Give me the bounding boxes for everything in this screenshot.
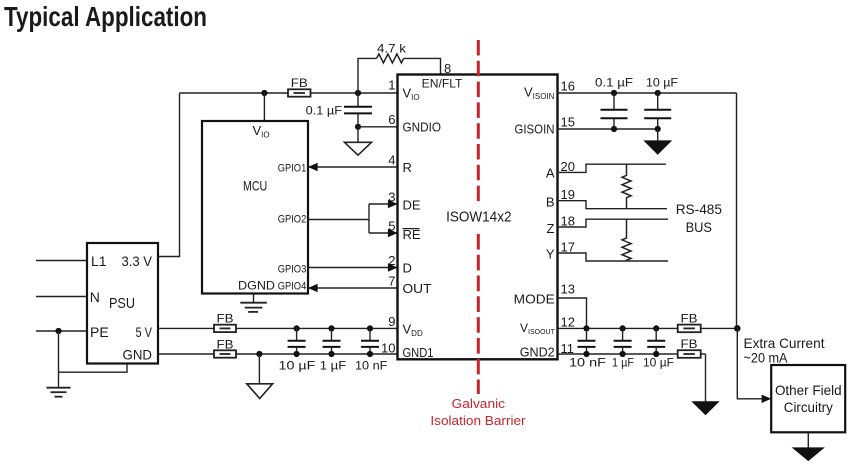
capacitor 10 uF (VISOOUT) — [643, 325, 674, 369]
svg-text:1: 1 — [388, 78, 395, 93]
MCU U3 box — [202, 121, 308, 294]
wire: RE pin 5 — [369, 232, 398, 234]
wire: stem to open triangle ground — [258, 354, 260, 384]
wire: A pin 20 — [558, 164, 667, 172]
svg-text:18: 18 — [561, 214, 575, 229]
svg-text:10 µF: 10 µF — [279, 359, 316, 373]
svg-text:17: 17 — [561, 240, 575, 255]
svg-text:RS-485: RS-485 — [676, 201, 723, 217]
resistor: Z-Y termination — [622, 219, 631, 261]
svg-text:FB: FB — [217, 337, 234, 351]
svg-text:5 V: 5 V — [136, 324, 153, 340]
svg-text:10: 10 — [381, 340, 395, 355]
capacitor 10 uF (VISOIN) — [644, 76, 678, 133]
wire: 3.3V up to VIO rail — [158, 93, 180, 257]
capacitor 10 nF (VISOOUT) — [569, 325, 606, 369]
svg-text:MCU: MCU — [243, 178, 267, 194]
arrowhead into DE — [388, 200, 398, 208]
svg-text:GND2: GND2 — [520, 344, 555, 359]
svg-text:Other Field: Other Field — [775, 382, 842, 398]
node: VIO rail / MCU branch — [261, 90, 267, 96]
svg-text:GPIO2: GPIO2 — [278, 214, 307, 226]
svg-text:12: 12 — [561, 314, 575, 329]
wire: GND rail to GND1 — [158, 353, 398, 355]
svg-text:EN/FLT: EN/FLT — [422, 77, 463, 91]
wire: GISOIN rail pin 15 — [558, 128, 658, 130]
wire: R to GPIO1 — [308, 166, 398, 168]
ground: filled triangle under 10uF — [645, 141, 672, 154]
svg-text:9: 9 — [388, 314, 395, 329]
svg-text:Z: Z — [547, 221, 555, 236]
node: GND rail ground branch — [256, 351, 262, 357]
wire: GPIO2 to DE/RE bracket — [308, 219, 369, 221]
svg-text:Circuitry: Circuitry — [784, 399, 833, 415]
ferrite bead FB (5V rail) — [214, 311, 236, 332]
svg-text:N: N — [90, 289, 100, 305]
wire: PE input — [36, 330, 87, 332]
svg-text:GPIO3: GPIO3 — [278, 263, 307, 275]
capacitor 1 uF (VISOOUT) — [612, 325, 634, 369]
wire: GPIO3 to D pin 2 — [308, 267, 398, 269]
wire: stem to iso ground — [657, 129, 659, 141]
wire: drop to Other Field Circuitry — [737, 328, 762, 398]
svg-text:16: 16 — [561, 79, 575, 94]
ferrite bead FB (GND2 rail) — [678, 337, 701, 358]
svg-text:Galvanic: Galvanic — [452, 397, 505, 411]
wire: GND2 drop to iso ground — [705, 354, 707, 402]
svg-text:~20 mA: ~20 mA — [744, 350, 789, 366]
svg-text:19: 19 — [561, 187, 575, 202]
wire: DE/RE bracket vertical — [368, 204, 370, 233]
arrowhead into GPIO4 — [308, 284, 318, 292]
wire: 5V rail to VDD — [158, 327, 398, 329]
svg-text:15: 15 — [561, 115, 575, 130]
capacitor 10 nF (VDD) — [355, 325, 387, 372]
wire: VIO drop to MCU — [263, 93, 265, 121]
ground: filled triangle under GND2 FB — [693, 402, 719, 415]
wire: Z pin 18 — [558, 219, 669, 227]
capacitor 0.1 uF (VISOIN) — [595, 76, 633, 133]
wire: VISOIN rail drop — [736, 93, 738, 328]
svg-text:MODE: MODE — [514, 291, 555, 306]
wire: VISOIN rail pin 16 — [558, 92, 737, 94]
svg-text:7: 7 — [388, 274, 395, 289]
wire: VISOOUT rail pin 12 — [558, 327, 738, 329]
svg-text:1 µF: 1 µF — [320, 359, 347, 373]
svg-text:FB: FB — [681, 311, 698, 325]
op IC U1 ISOW14x2 box — [398, 75, 558, 360]
arrowhead into RE — [388, 229, 398, 237]
svg-text:B: B — [546, 194, 555, 209]
wire: N input — [36, 296, 87, 298]
node: cap to GNDIO wire — [355, 124, 361, 130]
svg-text:4: 4 — [388, 153, 395, 168]
wire: stem to signal ground — [357, 127, 359, 143]
svg-text:D: D — [403, 261, 412, 276]
wire: PE to earth ground — [58, 331, 60, 388]
node: VIO rail / resistor+cap branch — [355, 90, 361, 96]
svg-text:2: 2 — [388, 253, 395, 268]
wire: L1 input — [36, 260, 87, 262]
arrowhead into Other Field Circuitry — [762, 395, 772, 403]
svg-text:1 µF: 1 µF — [612, 356, 634, 370]
svg-text:0.1 µF: 0.1 µF — [595, 76, 633, 90]
ferrite bead FB (GND rail) — [214, 337, 236, 357]
svg-text:BUS: BUS — [686, 219, 712, 235]
ground: earth ground at PSU — [47, 388, 71, 397]
svg-text:L1: L1 — [91, 253, 107, 269]
node: VISOOUT rail / drop junction — [734, 325, 741, 332]
ferrite bead FB (VIO rail) — [288, 76, 311, 97]
svg-text:Typical Application: Typical Application — [4, 1, 207, 32]
svg-text:10 µF: 10 µF — [643, 356, 674, 370]
svg-text:GPIO4: GPIO4 — [278, 281, 307, 293]
svg-text:6: 6 — [388, 112, 395, 127]
svg-text:DGND: DGND — [238, 279, 275, 293]
svg-text:GISOIN: GISOIN — [515, 121, 555, 136]
svg-text:3.3 V: 3.3 V — [122, 253, 153, 269]
wire: VIO rail — [180, 92, 398, 94]
svg-text:OUT: OUT — [403, 281, 432, 296]
svg-text:Y: Y — [546, 247, 555, 262]
wire: branch up to 4.7k resistor — [358, 58, 377, 93]
wire: GND2 rail pin 11 — [558, 353, 706, 355]
wire: GNDIO pin 6 — [358, 126, 398, 128]
barrier: red dashed isolation line — [477, 40, 480, 201]
Other Field Circuitry box — [771, 365, 845, 432]
svg-text:3: 3 — [388, 189, 395, 204]
wire: DGND stem — [253, 294, 255, 303]
capacitor 10 uF (VDD) — [279, 325, 316, 372]
wire: Y pin 17 — [558, 253, 669, 261]
ferrite bead FB (VISOOUT rail) — [678, 311, 701, 332]
svg-text:FB: FB — [681, 337, 698, 351]
svg-text:4.7 k: 4.7 k — [377, 42, 407, 56]
svg-text:PSU: PSU — [109, 295, 135, 312]
ground: open triangle under 0.1uF — [345, 142, 372, 155]
wire: PSU GND to earth link — [59, 364, 128, 373]
svg-text:DE: DE — [403, 198, 421, 213]
ground: open triangle under GND rail — [247, 384, 273, 399]
svg-text:13: 13 — [561, 282, 575, 297]
PSU U2 box — [87, 243, 158, 364]
svg-text:FB: FB — [291, 76, 308, 90]
svg-text:ISOW14x2: ISOW14x2 — [446, 208, 511, 225]
svg-text:20: 20 — [561, 159, 575, 174]
svg-text:GNDIO: GNDIO — [403, 119, 442, 134]
resistor 4.7 k — [377, 54, 404, 63]
resistor: A-B termination — [622, 164, 631, 209]
svg-text:R: R — [403, 160, 412, 175]
svg-text:5: 5 — [388, 218, 395, 233]
svg-text:10 nF: 10 nF — [355, 359, 387, 373]
wire: resistor to pin 8 — [404, 58, 441, 74]
svg-text:10 µF: 10 µF — [646, 76, 678, 90]
wire: DE pin 3 — [369, 203, 398, 205]
svg-text:GPIO1: GPIO1 — [278, 162, 307, 174]
wire: MODE pin 13 — [558, 298, 587, 328]
wire: B pin 19 — [558, 201, 668, 209]
node: PE junction — [55, 328, 61, 334]
wire: OUT pin 7 to GPIO4 — [308, 287, 398, 289]
svg-text:GND: GND — [123, 347, 153, 363]
ground: filled triangle under Other Field box — [793, 448, 824, 461]
svg-text:0.1 µF: 0.1 µF — [306, 104, 342, 118]
svg-text:GND1: GND1 — [403, 345, 434, 360]
arrowhead into GPIO1 — [308, 163, 318, 171]
svg-text:10 nF: 10 nF — [569, 356, 606, 370]
ground: signal ground at DGND — [240, 303, 266, 312]
capacitor 0.1 uF (VIO) — [306, 93, 372, 127]
arrowhead into D — [388, 263, 398, 271]
wire: Other Field ground stem — [807, 432, 809, 448]
svg-text:PE: PE — [90, 324, 109, 340]
capacitor 1 uF (VDD) — [320, 325, 347, 372]
svg-text:A: A — [546, 166, 555, 181]
svg-text:Isolation Barrier: Isolation Barrier — [430, 414, 525, 428]
svg-text:FB: FB — [217, 311, 234, 325]
